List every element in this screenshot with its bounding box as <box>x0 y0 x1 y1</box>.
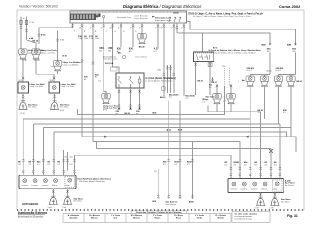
wire lamp R1 down <box>249 86 251 119</box>
switch drop 5 long <box>183 23 185 96</box>
svg-text:S10 15A: S10 15A <box>105 62 114 65</box>
svg-text:Sp. Painel: Sp. Painel <box>285 185 294 187</box>
wire fuse feed B <box>27 17 37 49</box>
switch drop 1 <box>157 23 159 47</box>
svg-text:5: 5 <box>171 27 172 29</box>
svg-text:B6.30: B6.30 <box>34 60 40 62</box>
svg-text:A = Amarelo: A = Amarelo <box>68 214 80 217</box>
wire down right 4 <box>260 112 262 174</box>
wire fog link <box>36 71 58 82</box>
svg-text:Vl = Violeta: Vl = Violeta <box>215 214 227 217</box>
wire K out 1 <box>118 88 120 109</box>
position lamp R3 <box>274 76 282 86</box>
ground G11 <box>50 100 59 109</box>
svg-text:P = Preto: P = Preto <box>153 214 162 217</box>
svg-text:Star Gelb: Star Gelb <box>206 96 216 99</box>
svg-text:(F 8): (F 8) <box>60 110 64 112</box>
link bar under reverse lamps <box>208 104 261 112</box>
svg-text:0.5: 0.5 <box>255 164 258 166</box>
svg-text:Blanco: Blanco <box>91 218 98 220</box>
cluster chevrons <box>166 67 169 70</box>
wire down right 3 <box>249 119 251 174</box>
svg-text:0.5: 0.5 <box>37 164 40 166</box>
svg-text:15A: 15A <box>95 37 99 40</box>
svg-text:E100: E100 <box>174 13 180 15</box>
label X6 <box>96 13 101 16</box>
svg-text:Lámp. Luz Posic.: Lámp. Luz Posic. <box>41 52 56 54</box>
svg-text:1: 1 <box>181 27 182 29</box>
svg-text:0.5: 0.5 <box>187 164 190 166</box>
inner feed wire from switch drop <box>177 31 270 43</box>
fuse S5 <box>20 20 22 24</box>
wire down left 5 <box>63 150 65 171</box>
lamp rear 1 <box>23 179 27 183</box>
small icon box <box>111 67 118 71</box>
svg-text:10: 10 <box>110 27 112 29</box>
fog lamp feed wire <box>57 31 59 61</box>
svg-text:Diagrama Elétrica / Diagramas: Diagrama Elétrica / Diagramas Eléctricos <box>123 4 202 9</box>
svg-text:0.5: 0.5 <box>58 164 61 166</box>
headlamp E1 left <box>19 49 27 59</box>
svg-text:Negro: Negro <box>155 218 162 220</box>
drop wire S2 <box>92 23 94 141</box>
wire down left 7 <box>74 155 76 170</box>
svg-text:Los relés en la caja: Los relés en la caja <box>235 219 253 221</box>
svg-text:0.5: 0.5 <box>186 98 189 100</box>
switch drop 4 <box>176 23 178 31</box>
dashed sub box right <box>273 180 283 191</box>
interruptor neblina box E7.5 <box>194 52 214 62</box>
pin number row line <box>70 12 186 14</box>
wire down to lamp row 2 <box>295 53 297 75</box>
svg-text:Cons. Instrum.: Cons. Instrum. <box>135 56 148 59</box>
svg-text:Star Nova: Star Nova <box>28 106 37 109</box>
svg-text:B6.30: B6.30 <box>160 97 166 99</box>
svg-text:6: 6 <box>90 27 91 29</box>
svg-text:Lámp. Luz Nebl.: Lámp. Luz Nebl. <box>61 86 75 88</box>
lamp rear r4 <box>263 182 267 186</box>
svg-text:Interruptor Com.: Interruptor Com. <box>117 16 132 19</box>
svg-text:Lâmp.: Lâmp. <box>273 189 278 191</box>
K out connectors and labels <box>118 107 141 109</box>
connector strip X6 hatched <box>71 14 96 20</box>
wire K out 2 <box>130 88 132 109</box>
cluster wire a <box>166 65 168 93</box>
wire box2 to ground <box>54 93 56 100</box>
rear fog lamp unit box right <box>49 82 60 93</box>
X marks entering right box <box>230 174 232 176</box>
svg-text:B1: B1 <box>84 79 86 81</box>
terminal 30 circle <box>102 15 104 17</box>
svg-text:S/ Faro de Neblina, Hasta el M: S/ Faro de Neblina, Hasta el Motor. Lámp… <box>211 52 256 55</box>
wire down left 2 <box>32 124 34 171</box>
svg-text:Star Nova: Star Nova <box>60 106 69 109</box>
svg-text:X56: X56 <box>50 80 53 82</box>
svg-text:B6.30: B6.30 <box>267 70 272 72</box>
svg-text:0.5: 0.5 <box>163 164 166 166</box>
svg-text:Violeta: Violeta <box>217 217 224 220</box>
lamp rear 4 <box>54 179 58 183</box>
wire down left 3 <box>42 128 44 171</box>
cluster connector box <box>162 87 166 90</box>
position lamp R2 <box>260 76 268 86</box>
labels under lamps <box>21 184 57 187</box>
ground G13 <box>63 195 72 204</box>
svg-text:Fog: Fog <box>51 66 54 68</box>
relay coil mark <box>138 76 141 88</box>
svg-text:Luces Estacion.: Luces Estacion. <box>134 17 149 20</box>
svg-text:(X): (X) <box>65 157 68 159</box>
svg-text:X55: X55 <box>19 80 22 82</box>
svg-text:Interruptor Luces: Interruptor Luces <box>103 58 117 61</box>
light switch contacts <box>155 17 181 23</box>
wire from fusebox to B30 <box>39 23 73 44</box>
chevrons right row <box>230 167 233 170</box>
wire lamp R3 down <box>278 86 280 124</box>
svg-text:Ré/Luz: Ré/Luz <box>52 185 57 187</box>
X50 dashed connector pair <box>223 68 225 86</box>
tail lamp E6 <box>102 94 110 104</box>
svg-text:0.5: 0.5 <box>209 87 212 89</box>
svg-text:(F 8): (F 8) <box>21 113 25 115</box>
tiny pin labels below bus <box>74 27 182 33</box>
svg-text:B2: B2 <box>95 77 97 79</box>
ground G10 left <box>18 100 27 109</box>
mid bottom wire 2 <box>179 101 181 200</box>
svg-text:7.5A: 7.5A <box>78 37 83 40</box>
lamp rear 2 <box>33 179 37 183</box>
svg-text:0.5: 0.5 <box>258 112 261 114</box>
chevrons mid drops <box>81 60 84 63</box>
junction arrows on wire 180 <box>178 129 183 131</box>
left row labels <box>18 157 72 166</box>
ground G12 <box>49 195 58 204</box>
drop wire tail lamp <box>104 23 106 93</box>
ground G15 <box>270 196 279 205</box>
switch drop 3 <box>173 23 175 93</box>
svg-text:Ré/Luz: Ré/Luz <box>262 189 267 191</box>
ground bus dotted separator <box>17 209 304 211</box>
wires below left box <box>52 189 54 196</box>
wire lamp1 to rear fog unit <box>22 59 24 82</box>
svg-text:0.5: 0.5 <box>234 164 237 166</box>
lamp rear r3 <box>253 182 257 186</box>
drop wire to relay K <box>113 23 120 73</box>
mid bottom wire 3 <box>192 142 194 200</box>
svg-text:B6.30: B6.30 <box>297 81 303 83</box>
svg-text:4: 4 <box>101 27 102 29</box>
svg-text:1.5: 1.5 <box>29 164 32 166</box>
drop wire license lamp <box>141 23 143 33</box>
svg-text:B6.30: B6.30 <box>198 80 204 82</box>
svg-text:Star Nova: Star Nova <box>281 200 290 203</box>
relay contact 2 <box>129 76 133 88</box>
drop wire 6 <box>132 23 134 47</box>
relay contact 1 <box>118 76 122 88</box>
svg-text:0.5: 0.5 <box>283 112 286 114</box>
cluster wire b <box>170 65 172 93</box>
small aux circuit <box>212 77 214 83</box>
svg-text:Versão / Versión: 5001/02: Versão / Versión: 5001/02 <box>19 5 58 9</box>
ground G14 <box>256 196 265 205</box>
dashed sub box <box>65 176 75 187</box>
svg-text:0.5: 0.5 <box>18 164 21 166</box>
svg-text:B6.30: B6.30 <box>139 47 146 49</box>
wires below right box <box>260 193 262 197</box>
footer note box <box>232 212 270 223</box>
svg-text:9: 9 <box>130 27 131 29</box>
fan wire 5 with arrow <box>82 137 296 152</box>
wire down right 6 <box>279 124 281 174</box>
svg-text:S/ Farol de Neblina, Até o Mot: S/ Farol de Neblina, Até o Motor. Lâmp. … <box>209 49 262 52</box>
right row labels <box>225 162 277 166</box>
fan wire 3 <box>43 128 291 137</box>
svg-text:0.5: 0.5 <box>48 164 51 166</box>
labels under lamps right <box>230 188 266 191</box>
lamp row link wires <box>250 74 295 76</box>
lamp rear 3 <box>44 179 48 183</box>
clock icon <box>122 55 125 58</box>
reverse lamp E15 <box>213 94 221 104</box>
rear fog lamp unit box left <box>18 82 29 93</box>
outer feed wire from switch to right lamps <box>186 22 295 44</box>
fan wire 0 <box>77 86 224 114</box>
fan wire 2 <box>33 123 280 125</box>
connector on wire A <box>20 26 23 29</box>
vertical drop for fan7 source <box>96 142 98 149</box>
row chevrons mid wires <box>167 159 170 162</box>
svg-text:3: 3 <box>118 27 119 29</box>
relay box K58 <box>116 73 144 88</box>
position lamp R1 <box>246 76 254 86</box>
lone wire mid <box>157 169 159 199</box>
X marks entering left box <box>22 170 24 172</box>
wire box1 to ground <box>22 93 24 100</box>
fan wire 6 <box>93 141 240 143</box>
fan wire 4 <box>54 132 287 137</box>
fan wire 7 <box>97 148 272 150</box>
mid bottom wire 1 <box>168 101 170 200</box>
fuse S6 <box>25 20 27 24</box>
headlamp E2 right <box>32 49 40 59</box>
wire down right 2 <box>239 142 241 175</box>
svg-text:15: 15 <box>79 27 81 29</box>
reverse lamp E15 feed <box>216 84 218 94</box>
svg-text:Os relés estão situados: Os relés estão situados <box>235 212 258 215</box>
main frame border <box>17 10 304 210</box>
svg-text:Lámp. Luz Nebl.: Lámp. Luz Nebl. <box>30 86 44 88</box>
svg-text:Star Externa: Star Externa <box>166 203 177 206</box>
svg-text:Lâmp.: Lâmp. <box>66 185 71 187</box>
lamp rear r1 <box>232 182 236 186</box>
svg-text:0.5: 0.5 <box>265 164 268 166</box>
wire from switch to E7.5 <box>202 33 204 52</box>
svg-text:0.5: 0.5 <box>225 164 228 166</box>
connector marks left row <box>22 159 25 162</box>
junction arrows on wire 168.75 <box>166 129 171 131</box>
wire E7.5 out 1 <box>195 62 197 95</box>
svg-text:8: 8 <box>161 27 162 29</box>
wire down right 1 <box>230 155 232 174</box>
lamp rear r2 <box>242 182 246 186</box>
wires into left box <box>23 171 74 176</box>
wire lamp2 down <box>35 59 37 74</box>
svg-text:7.5A: 7.5A <box>89 37 94 40</box>
svg-text:Gr 0.5: Gr 0.5 <box>247 69 252 72</box>
svg-text:Cores dos Circuitos / Colores: Cores dos Circuitos / Colores de los Cir… <box>136 211 182 214</box>
svg-text:B6.30: B6.30 <box>33 40 39 42</box>
svg-text:Gr 0.5: Gr 0.5 <box>276 69 281 72</box>
svg-text:Fig. 31: Fig. 31 <box>287 214 298 218</box>
wire lamp R2 down <box>264 86 266 119</box>
svg-text:C. (Con (Acum. Nivolante).): C. (Con (Acum. Nivolante).) <box>146 79 173 82</box>
fuse box P4 outline <box>70 11 186 23</box>
license plate lamp E5 <box>138 34 146 44</box>
wire lamp R4 down <box>290 86 292 127</box>
wire down left 4 <box>53 132 55 171</box>
wires into right box <box>231 174 280 178</box>
svg-text:(X): (X) <box>70 157 73 159</box>
brake lamp E16 <box>227 94 235 104</box>
svg-text:(F 8): (F 8) <box>103 110 107 112</box>
svg-text:0.5: 0.5 <box>202 102 205 104</box>
svg-text:Iluminación Exterior: Iluminación Exterior <box>18 215 43 219</box>
svg-text:X50: X50 <box>222 66 225 68</box>
svg-text:Ré (Faros (Acion. Neviárias.): Ré (Faros (Acion. Neviárias.) <box>79 180 105 183</box>
svg-text:Verde: Verde <box>197 218 203 220</box>
svg-text:E100 S/ Jape: C, Até c/ Neon.: E100 S/ Jape: C, Até c/ Neon. Lâmp. Pos.… <box>189 12 264 15</box>
position lamp R4 <box>287 76 295 86</box>
svg-text:1.0: 1.0 <box>98 81 101 83</box>
svg-text:2: 2 <box>139 27 140 29</box>
wire down left 6 <box>67 152 69 171</box>
svg-text:Amarillo: Amarillo <box>69 217 78 220</box>
wire down left 1 <box>22 119 24 171</box>
svg-text:Corsa 2002: Corsa 2002 <box>279 4 301 9</box>
svg-text:Marrón: Marrón <box>133 218 141 220</box>
fan wire 1 <box>23 118 250 120</box>
svg-text:0.5: 0.5 <box>244 164 247 166</box>
wire down to lamp row 1 <box>269 53 271 75</box>
switch internal arrow <box>152 16 155 18</box>
wire fuse feed A <box>20 17 22 49</box>
brake lamp E16 feed <box>230 84 232 94</box>
switch drop 2 <box>163 23 165 96</box>
wire K out 3 <box>139 88 141 109</box>
svg-text:0.5: 0.5 <box>274 164 277 166</box>
fan wire 8 <box>75 154 231 156</box>
fog lamp E3 <box>53 61 61 71</box>
right tail lamp box <box>228 178 284 192</box>
wire E7.5 out 2 <box>209 62 211 95</box>
svg-text:0.5: 0.5 <box>175 164 178 166</box>
drop wire 5 <box>120 23 122 47</box>
svg-text:HATCHBACK: HATCHBACK <box>22 202 39 206</box>
svg-text:30: 30 <box>23 18 25 20</box>
svg-text:0.5: 0.5 <box>169 97 172 99</box>
footer legend color-code table <box>63 211 231 222</box>
X junction mark <box>269 149 273 153</box>
svg-text:Star Nova: Star Nova <box>74 200 83 203</box>
arrow junction left of lamp1 <box>242 80 245 82</box>
svg-text:Lámp. Luz Neblina: Lámp. Luz Neblina <box>63 64 80 66</box>
svg-text:S/ Jape: C, Até c/ Neon. Lámp.: S/ Jape: C, Até c/ Neon. Lámp. Pos. Dupl… <box>193 15 252 18</box>
wire down right 5 <box>270 149 272 174</box>
svg-text:15A: 15A <box>84 37 88 40</box>
svg-text:0.5: 0.5 <box>70 164 73 166</box>
svg-text:7: 7 <box>155 27 156 29</box>
drop wire S1 <box>81 23 83 137</box>
connector chevron on B30 wire <box>38 34 41 37</box>
svg-text:Interruptor Luz: Interruptor Luz <box>155 17 170 20</box>
